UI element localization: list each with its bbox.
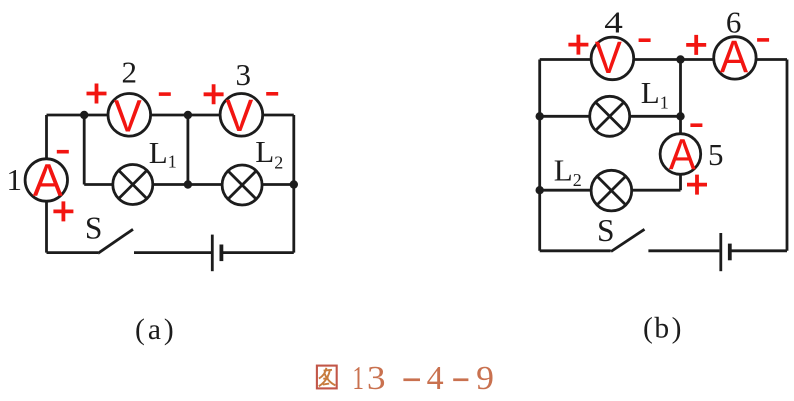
polarity plus of voltmeter V3 [204, 84, 224, 104]
battery (a) short negative plate [219, 245, 223, 262]
lamp L1 (b) [590, 96, 630, 136]
polarity plus of ammeter A1 [53, 201, 73, 221]
polarity plus of ammeter A5 [687, 175, 707, 195]
wire: node drop between voltmeters (a) [186, 115, 189, 185]
polarity minus of voltmeter V4 [639, 38, 651, 42]
wire: circuit (b) top rail [540, 58, 787, 61]
polarity plus of ammeter A6 [686, 35, 706, 55]
node: junction dot top rail middle (a) [184, 111, 192, 119]
wire: circuit (b) L1 branch [540, 115, 681, 118]
polarity minus of voltmeter V3 [266, 92, 278, 96]
voltmeter V4 circle [591, 37, 634, 80]
wire: node drop from top rail to lamp branch (a) left [83, 115, 86, 185]
polarity minus of ammeter A5 [690, 123, 702, 127]
svg-text:6: 6 [726, 5, 742, 40]
wire: middle drop from top rail through L1 node to ammeter A5 [679, 60, 682, 154]
wire: circuit (a) lamp branch [84, 183, 294, 186]
wire: circuit (b) left rail [538, 60, 541, 251]
wire: circuit (a) bottom rail battery to right corner [222, 251, 293, 254]
caption figure number 13-4-9 [352, 359, 494, 398]
svg-text:L1: L1 [641, 75, 669, 112]
polarity plus of voltmeter V4 [568, 35, 588, 55]
lamp L2 (a) [222, 165, 262, 205]
svg-text:V: V [225, 92, 253, 142]
ammeter A5 circle [660, 134, 701, 175]
svg-text:2: 2 [121, 55, 137, 90]
svg-text:4: 4 [604, 5, 623, 39]
switch S (b) blade [611, 229, 645, 251]
node: junction dot left rail at L2 branch (b) [536, 186, 544, 194]
node: junction dot lamp branch middle (a) [184, 180, 192, 188]
svg-text:S: S [85, 211, 103, 246]
label 4 of voltmeter V4 [604, 5, 623, 39]
node: junction dot lamp branch right (a) [290, 180, 298, 188]
svg-text:9: 9 [476, 359, 494, 397]
wire: circuit (b) bottom rail switch to battery [648, 249, 719, 252]
svg-text:L1: L1 [149, 135, 177, 172]
ammeter A6 circle [714, 37, 756, 79]
wire: circuit (b) right rail [786, 60, 789, 251]
lamp L1 (a) [113, 165, 153, 205]
battery (b) long positive plate [719, 233, 722, 271]
polarity minus of ammeter A6 [757, 38, 769, 42]
svg-text:A: A [669, 130, 697, 179]
svg-text:(b): (b) [643, 313, 681, 345]
svg-text:5: 5 [708, 137, 724, 172]
svg-text:4: 4 [427, 360, 444, 397]
polarity minus of ammeter A1 [57, 150, 69, 154]
svg-text:1: 1 [352, 360, 364, 397]
svg-text:S: S [597, 213, 615, 248]
svg-text:1: 1 [7, 162, 23, 197]
wire: circuit (b) bottom rail battery to right corner [731, 249, 787, 252]
wire: circuit (a) right rail [292, 115, 295, 253]
ammeter A5 letter [669, 130, 697, 179]
wire: circuit (b) bottom rail left segment to switch [540, 249, 611, 252]
svg-text:V: V [595, 33, 622, 83]
voltmeter V2 circle [108, 94, 151, 137]
node: junction dot L1 branch right (b) [676, 112, 684, 120]
voltmeter V3 circle [220, 94, 263, 137]
svg-text:3: 3 [367, 359, 386, 397]
polarity minus of voltmeter V2 [159, 92, 171, 96]
svg-text:(a): (a) [135, 314, 174, 346]
node: junction dot left rail at L1 branch (b) [536, 112, 544, 120]
wire: circuit (a) top rail [47, 114, 294, 117]
svg-text:L2: L2 [255, 134, 283, 172]
wire: ammeter A5 to L2 branch elbow [679, 155, 682, 190]
svg-text:3: 3 [236, 57, 252, 92]
wire: circuit (a) bottom rail switch to battery [134, 251, 211, 254]
voltmeter V4 letter [595, 33, 622, 83]
ammeter A1 circle [25, 159, 67, 201]
caption figure character tu (drawn) [317, 366, 337, 389]
node: junction dot top rail middle (b) [676, 55, 684, 63]
node: junction dot top rail left (a) [80, 111, 88, 119]
battery (b) short negative plate [728, 244, 732, 261]
wire: circuit (b) L2 branch [540, 189, 681, 192]
voltmeter V2 letter [114, 92, 142, 142]
ammeter A6 letter [720, 32, 749, 82]
svg-text:V: V [114, 92, 142, 142]
wire: circuit (a) left rail through ammeter 1 [45, 115, 48, 253]
battery (a) long positive plate [211, 235, 214, 272]
polarity plus of voltmeter V2 [87, 84, 107, 104]
switch S (a) blade [98, 229, 133, 253]
voltmeter V3 letter [225, 92, 253, 142]
svg-text:A: A [33, 155, 63, 206]
lamp L2 (b) [591, 170, 632, 211]
wire: circuit (a) bottom rail left segment to switch [47, 251, 99, 254]
svg-text:L2: L2 [554, 153, 582, 190]
